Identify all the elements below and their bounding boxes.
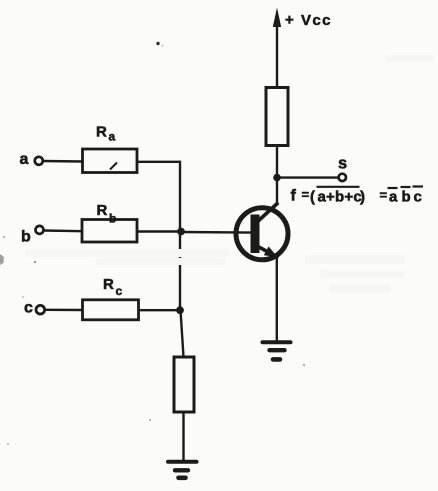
overline over a [388,187,398,189]
svg-text:c: c [24,300,33,317]
wire resistor Rc to node C junction [139,309,182,311]
scan speck [7,443,9,445]
wire node C down to base resistor [181,310,184,357]
wire input a to resistor Ra [43,160,83,163]
wire collector node to output terminal [277,176,339,178]
node C junction dot [176,306,184,314]
svg-text:=: = [380,188,388,203]
wire emitter down to ground [276,256,278,341]
scan speck [22,296,24,298]
collector lead diagonal [257,203,279,223]
tick inside Ra [110,163,117,170]
ghost bleed-through text rows [25,55,435,293]
svg-text:a: a [109,130,116,144]
wire resistor Ra to bus [137,161,181,163]
transistor Q1 [236,203,288,260]
wire input c to resistor Rc [45,309,83,312]
svg-text:b: b [109,212,116,226]
wire collector resistor to collector node [276,145,278,204]
node B junction dot [177,228,185,236]
wire Vcc supply vertical [276,24,278,88]
overline over b [401,186,411,188]
ground (emitter) [263,342,291,359]
power arrow +Vcc [273,8,281,28]
input a terminal [35,157,43,165]
svg-text:R: R [97,202,108,219]
scan speck [162,45,164,47]
scan speck [149,419,151,421]
wire bus vertical (Ra corner down through node B to node C) [179,161,181,311]
svg-text:(: ( [310,189,315,206]
output terminal s [339,174,346,181]
svg-text:): ) [360,189,365,206]
svg-text:R: R [96,124,107,141]
wire input b to resistor Rb [44,229,82,232]
node collector junction dot [273,174,281,182]
base bar [251,215,260,254]
scan speck [34,261,36,263]
resistor Rb (box) [82,220,137,243]
emitter lead diagonal [257,246,279,258]
ground (bottom) [168,462,197,478]
wire base resistor to bottom ground [182,411,184,461]
label f = (a+b+c) = abc formula [291,187,422,206]
svg-text:f: f [291,188,297,205]
resistor Rc (box) [83,300,139,320]
input c terminal [36,305,45,314]
wire resistor Rb to node B junction [137,230,181,232]
scan speck [3,236,5,238]
edge smudge left [0,254,4,265]
scan speck [156,42,159,45]
transistor body circle [236,208,288,260]
svg-text:+: + [285,11,295,28]
emitter arrowhead [264,246,278,257]
svg-text:b: b [21,228,31,245]
svg-text:=: = [302,187,310,202]
scan speck [303,364,305,366]
svg-text:Vcc: Vcc [301,12,332,29]
svg-text:c: c [414,189,422,206]
svg-text:a+b+c: a+b+c [318,189,362,206]
overline over (a+b+c) [317,186,360,188]
resistor collector (box) [266,88,288,146]
svg-text:a: a [20,151,29,168]
svg-text:s: s [338,155,347,173]
svg-text:c: c [116,284,123,298]
overline over c [413,185,424,187]
svg-text:R: R [103,276,114,293]
input b terminal [36,226,44,234]
wire base: node B to transistor base bar [181,231,252,234]
resistor base pulldown (box) [174,357,194,412]
svg-text:b: b [402,189,411,206]
svg-text:a: a [389,189,398,206]
resistor Ra (box) [83,149,138,173]
